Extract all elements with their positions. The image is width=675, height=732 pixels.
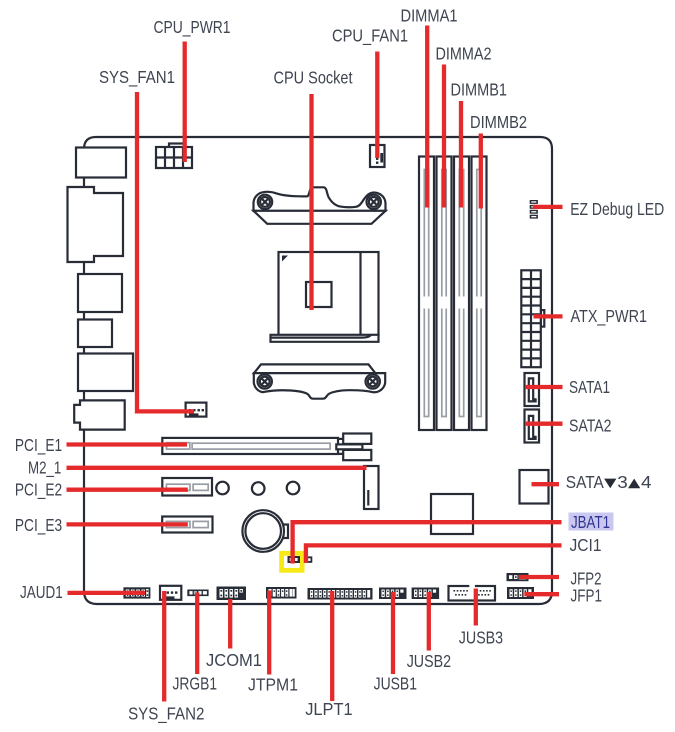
svg-text:DIMMA1: DIMMA1 bbox=[401, 5, 458, 25]
svg-text:CPU_PWR1: CPU_PWR1 bbox=[154, 17, 231, 38]
svg-text:M2_1: M2_1 bbox=[28, 458, 61, 479]
svg-text:SATA1: SATA1 bbox=[569, 377, 610, 397]
svg-text:4: 4 bbox=[641, 472, 652, 492]
svg-text:SYS_FAN2: SYS_FAN2 bbox=[128, 704, 204, 725]
svg-text:CPU_FAN1: CPU_FAN1 bbox=[332, 26, 408, 47]
svg-text:JCOM1: JCOM1 bbox=[206, 650, 262, 670]
svg-text:JAUD1: JAUD1 bbox=[20, 582, 63, 602]
svg-text:JCI1: JCI1 bbox=[570, 535, 602, 555]
svg-text:ATX_PWR1: ATX_PWR1 bbox=[571, 306, 648, 327]
svg-text:PCI_E1: PCI_E1 bbox=[15, 435, 62, 456]
svg-text:SYS_FAN1: SYS_FAN1 bbox=[99, 67, 175, 88]
svg-text:JTPM1: JTPM1 bbox=[248, 674, 298, 694]
svg-text:DIMMB2: DIMMB2 bbox=[470, 112, 527, 132]
svg-text:JUSB1: JUSB1 bbox=[374, 673, 417, 693]
svg-text:EZ Debug LED: EZ Debug LED bbox=[570, 199, 664, 219]
svg-text:3: 3 bbox=[617, 472, 628, 492]
svg-text:JFP1: JFP1 bbox=[571, 585, 603, 605]
svg-text:DIMMA2: DIMMA2 bbox=[436, 44, 492, 64]
svg-text:JLPT1: JLPT1 bbox=[305, 699, 352, 719]
svg-text:JUSB2: JUSB2 bbox=[407, 651, 451, 671]
svg-text:CPU Socket: CPU Socket bbox=[274, 68, 353, 88]
svg-text:PCI_E3: PCI_E3 bbox=[15, 515, 62, 536]
svg-text:JRGB1: JRGB1 bbox=[173, 673, 218, 693]
svg-text:SATA2: SATA2 bbox=[569, 415, 612, 435]
svg-text:JUSB3: JUSB3 bbox=[459, 628, 503, 648]
svg-text:PCI_E2: PCI_E2 bbox=[15, 480, 62, 501]
svg-text:JBAT1: JBAT1 bbox=[571, 512, 610, 532]
svg-text:DIMMB1: DIMMB1 bbox=[451, 80, 508, 100]
svg-text:SATA: SATA bbox=[566, 472, 604, 492]
